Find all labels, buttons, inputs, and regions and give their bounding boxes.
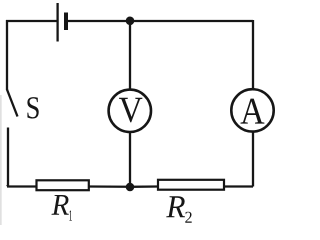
ammeter A circle — [231, 89, 273, 131]
label S — [27, 97, 38, 118]
ammeter letter A — [241, 99, 265, 124]
wire node B to R2 — [130, 185, 158, 188]
label R1 subscript 1 — [69, 210, 72, 220]
scan edge artifact left — [0, 95, 1, 225]
wire right side upper (corner to ammeter) — [252, 20, 254, 89]
label R2 subscript 2 — [185, 212, 191, 223]
wire battery to node A — [68, 20, 131, 22]
wire middle lower (voltmeter to node B) — [129, 133, 131, 188]
battery short thick plate (negative) — [64, 13, 68, 31]
label R1 letter R — [51, 195, 68, 215]
resistor R1 — [37, 180, 89, 190]
node A junction dot (top) — [126, 17, 135, 26]
wire right side lower (ammeter to corner) — [252, 133, 254, 187]
node B junction dot (bottom) — [126, 183, 135, 192]
wire R2 to bottom-right corner — [224, 185, 253, 187]
wire left side upper (corner to switch) — [6, 20, 8, 90]
label R2 letter R — [166, 196, 185, 217]
wire node A to top-right corner — [130, 20, 253, 22]
wire left side lower (switch to bottom corner) — [7, 128, 8, 187]
wire bottom-left corner to R1 — [7, 185, 37, 187]
battery long plate (positive) — [56, 3, 58, 42]
wire middle upper (node A to voltmeter) — [129, 21, 131, 89]
voltmeter letter V — [119, 98, 142, 123]
wire R1 to node B — [89, 185, 130, 188]
switch S blade (open) — [7, 90, 18, 117]
voltmeter V circle — [109, 90, 151, 132]
wire top-left segment — [6, 20, 57, 22]
resistor R2 — [158, 180, 224, 190]
